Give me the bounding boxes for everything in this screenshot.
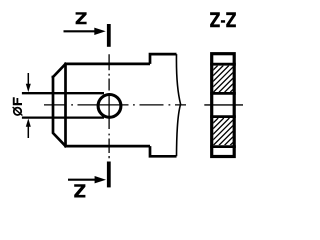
label ØF [13,97,23,115]
section inner line top [210,63,236,66]
section arrow top [64,28,106,35]
body bottom edge [64,145,150,148]
section arrow bottom [68,176,106,183]
body top edge [64,63,150,66]
section mark bar top [107,24,111,47]
section inner line bottom [210,145,236,148]
dimension arrow lower [26,119,31,139]
step up right [150,54,177,64]
section outer rectangle [212,54,235,157]
step down right [150,146,177,156]
section horizontal centerline [204,104,243,106]
label Z top [76,12,87,24]
hatch lower block [185,118,263,145]
section hole line bottom [210,115,236,118]
section hole line top [210,92,236,95]
label Z-Z section title [210,12,236,27]
flange outline [53,64,66,146]
section mark bar bottom [107,162,111,188]
flange front face [64,64,67,146]
hole circle [98,95,121,118]
dimension arrow upper [26,73,31,92]
label Z bottom [74,184,85,197]
break line (wavy) [176,54,180,156]
hole edge bottom (ØF) [22,116,104,118]
hole edge top (ØF) [22,92,104,94]
horizontal centerline main view [44,104,186,106]
hatch upper block [185,66,262,93]
cutting plane centerline (vertical) [108,54,110,158]
